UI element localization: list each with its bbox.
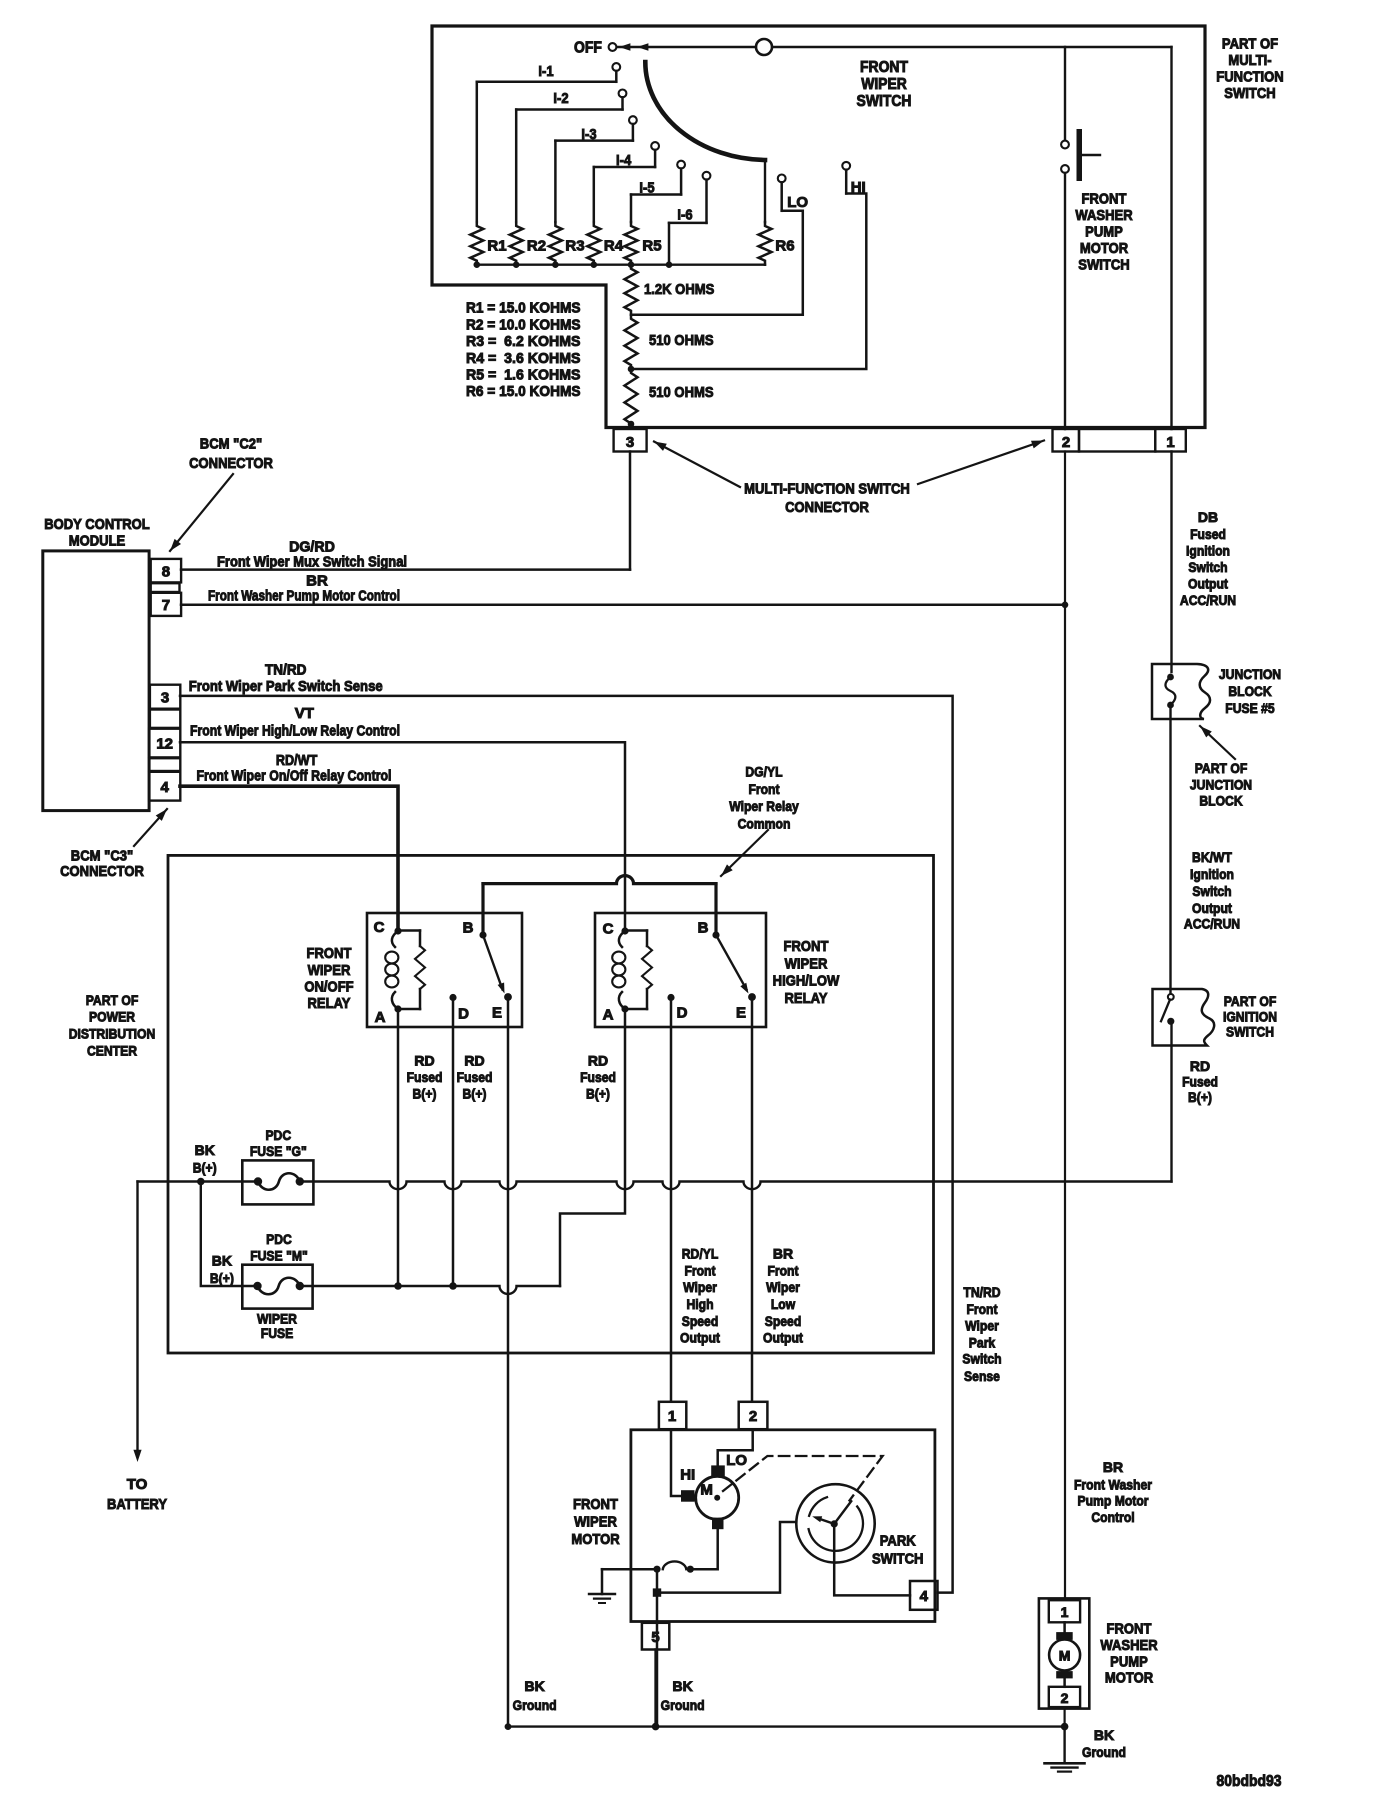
svg-text:JUNCTION: JUNCTION [1219,666,1281,682]
svg-text:Wiper: Wiper [683,1279,717,1295]
svg-text:ACC/RUN: ACC/RUN [1184,916,1240,932]
svg-text:Pump Motor: Pump Motor [1078,1492,1149,1508]
svg-text:A: A [375,1009,386,1026]
svg-text:2: 2 [1062,434,1070,451]
svg-text:Front: Front [767,1262,798,1278]
svg-text:Control: Control [1091,1509,1134,1525]
svg-text:FRONT: FRONT [784,938,829,955]
svg-text:Front Washer Pump Motor Contro: Front Washer Pump Motor Control [208,588,400,605]
svg-text:I-2: I-2 [553,90,568,107]
svg-text:WIPER: WIPER [574,1514,617,1531]
svg-text:E: E [492,1005,502,1022]
svg-text:Front: Front [966,1301,997,1317]
svg-text:High: High [686,1296,713,1312]
svg-text:HIGH/LOW: HIGH/LOW [773,973,840,990]
svg-text:BATTERY: BATTERY [107,1496,167,1513]
svg-text:IGNITION: IGNITION [1223,1008,1277,1024]
svg-text:B(+): B(+) [210,1270,234,1286]
svg-text:RD: RD [414,1053,434,1069]
svg-text:FUSE "G": FUSE "G" [250,1143,307,1159]
svg-text:Low: Low [771,1296,795,1312]
svg-text:FRONT: FRONT [860,59,908,76]
svg-text:BK/WT: BK/WT [1192,849,1232,865]
svg-text:R5 = 1.6 KOHMS: R5 = 1.6 KOHMS [466,367,581,384]
svg-text:MOTOR: MOTOR [1105,1670,1153,1687]
svg-text:PART OF: PART OF [1195,760,1248,776]
svg-text:7: 7 [162,597,170,614]
svg-text:Common: Common [738,816,791,832]
svg-text:RELAY: RELAY [785,990,828,1007]
svg-text:Front Wiper On/Off Relay Contr: Front Wiper On/Off Relay Control [197,767,392,784]
svg-text:MODULE: MODULE [69,533,126,550]
svg-text:Speed: Speed [682,1313,719,1329]
svg-text:HI: HI [851,179,866,196]
svg-text:510 OHMS: 510 OHMS [649,384,714,401]
svg-text:SWITCH: SWITCH [1078,257,1130,274]
svg-text:FUSE: FUSE [261,1325,294,1341]
svg-text:3: 3 [626,434,634,451]
svg-text:I-5: I-5 [639,180,654,197]
svg-text:Front: Front [748,781,779,797]
svg-text:Wiper: Wiper [965,1318,999,1334]
svg-text:R2 = 10.0 KOHMS: R2 = 10.0 KOHMS [466,316,581,333]
svg-text:Fused: Fused [580,1069,616,1085]
svg-text:2: 2 [1061,1690,1069,1706]
svg-text:FRONT: FRONT [1082,191,1127,208]
svg-text:Fused: Fused [1182,1073,1218,1089]
svg-text:R3 = 6.2 KOHMS: R3 = 6.2 KOHMS [466,333,581,350]
svg-text:BK: BK [195,1142,215,1158]
svg-text:BR: BR [1103,1459,1123,1475]
svg-text:4: 4 [920,1588,929,1605]
svg-text:Wiper Relay: Wiper Relay [729,798,799,814]
svg-text:SWITCH: SWITCH [1224,85,1276,102]
svg-text:FUSE "M": FUSE "M" [250,1247,308,1263]
svg-text:RD: RD [1190,1058,1210,1074]
svg-text:Switch: Switch [962,1350,1001,1366]
svg-text:WIPER: WIPER [861,76,907,93]
svg-text:Front: Front [684,1262,715,1278]
svg-text:D: D [458,1006,469,1023]
svg-text:BK: BK [212,1252,232,1268]
svg-text:CONNECTOR: CONNECTOR [785,499,869,516]
svg-text:SWITCH: SWITCH [857,93,912,110]
svg-text:R1: R1 [487,238,506,255]
svg-text:Sense: Sense [964,1368,1000,1384]
svg-text:R4 = 3.6 KOHMS: R4 = 3.6 KOHMS [466,350,581,367]
svg-text:I-6: I-6 [677,207,692,224]
svg-text:B: B [698,920,709,937]
svg-text:Front Wiper Mux Switch Signal: Front Wiper Mux Switch Signal [217,554,407,571]
svg-text:OFF: OFF [574,40,602,57]
svg-text:RD: RD [464,1053,484,1069]
svg-text:MULTI-FUNCTION SWITCH: MULTI-FUNCTION SWITCH [744,481,910,498]
svg-text:E: E [736,1005,746,1022]
svg-text:1: 1 [668,1408,676,1425]
svg-text:PUMP: PUMP [1085,224,1123,241]
svg-text:CONNECTOR: CONNECTOR [60,863,144,880]
svg-text:FRONT: FRONT [1107,1621,1152,1638]
svg-text:Fused: Fused [457,1069,493,1085]
svg-text:C: C [603,921,614,938]
svg-text:2: 2 [749,1408,757,1425]
svg-text:B(+): B(+) [586,1086,610,1102]
svg-text:FRONT: FRONT [573,1496,618,1513]
svg-text:B(+): B(+) [193,1160,217,1176]
svg-text:5: 5 [651,1629,659,1646]
svg-text:A: A [603,1007,614,1024]
svg-text:C: C [374,919,385,936]
svg-text:MOTOR: MOTOR [571,1531,619,1548]
svg-text:PDC: PDC [265,1127,291,1143]
svg-text:SWITCH: SWITCH [1226,1024,1274,1040]
svg-text:FRONT: FRONT [307,945,352,962]
svg-text:TN/RD: TN/RD [963,1284,1000,1300]
svg-text:LO: LO [726,1452,747,1469]
svg-text:BK: BK [672,1678,692,1694]
svg-text:CONNECTOR: CONNECTOR [189,455,273,472]
svg-text:Park: Park [969,1334,996,1350]
svg-text:WIPER: WIPER [785,956,828,973]
svg-text:12: 12 [156,736,173,753]
svg-text:BODY CONTROL: BODY CONTROL [44,516,150,533]
svg-text:BK: BK [524,1678,544,1694]
svg-text:B: B [463,920,474,937]
svg-text:R6 = 15.0 KOHMS: R6 = 15.0 KOHMS [466,383,581,400]
svg-text:1: 1 [1166,434,1174,451]
svg-text:CENTER: CENTER [87,1042,137,1058]
svg-text:ACC/RUN: ACC/RUN [1180,592,1236,608]
svg-text:Output: Output [1188,576,1228,592]
svg-text:B(+): B(+) [413,1086,437,1102]
svg-text:R5: R5 [642,238,661,255]
svg-text:MULTI-: MULTI- [1228,52,1271,69]
svg-text:Fused: Fused [407,1069,443,1085]
svg-text:4: 4 [161,779,170,796]
svg-text:BCM "C2": BCM "C2" [200,436,262,453]
svg-text:ON/OFF: ON/OFF [304,979,353,996]
svg-text:R2: R2 [527,238,546,255]
svg-text:FUNCTION: FUNCTION [1216,69,1283,86]
svg-text:POWER: POWER [89,1009,135,1025]
svg-text:PARK: PARK [880,1532,916,1549]
svg-text:Speed: Speed [765,1313,802,1329]
svg-text:BR: BR [773,1246,793,1262]
svg-text:PART OF: PART OF [86,992,139,1008]
svg-text:I-1: I-1 [538,63,553,80]
svg-text:I-3: I-3 [581,126,596,143]
svg-text:PART OF: PART OF [1224,993,1277,1009]
svg-text:RD/YL: RD/YL [682,1246,719,1262]
svg-text:DB: DB [1198,509,1218,525]
svg-text:Output: Output [1192,900,1232,916]
svg-text:JUNCTION: JUNCTION [1190,777,1252,793]
svg-text:Ignition: Ignition [1190,866,1234,882]
svg-text:Front Washer: Front Washer [1074,1476,1152,1492]
svg-text:Fused: Fused [1190,526,1226,542]
svg-text:DISTRIBUTION: DISTRIBUTION [69,1026,156,1042]
svg-text:MOTOR: MOTOR [1080,240,1128,257]
svg-text:1.2K OHMS: 1.2K OHMS [644,281,714,298]
svg-text:RD: RD [588,1053,608,1069]
svg-text:PDC: PDC [266,1231,292,1247]
svg-text:FUSE #5: FUSE #5 [1225,700,1275,716]
svg-text:M: M [700,1481,713,1498]
svg-text:Ground: Ground [513,1697,557,1713]
svg-text:BK: BK [1094,1727,1114,1743]
svg-text:D: D [677,1005,688,1022]
svg-text:510 OHMS: 510 OHMS [649,332,714,349]
svg-text:R6: R6 [775,238,794,255]
svg-text:PART OF: PART OF [1222,36,1278,53]
svg-text:VT: VT [295,705,314,722]
svg-text:BLOCK: BLOCK [1228,683,1271,699]
svg-text:Output: Output [763,1330,803,1346]
svg-text:HI: HI [680,1466,695,1483]
svg-text:M: M [1059,1648,1071,1664]
svg-text:1: 1 [1061,1604,1069,1620]
svg-text:TN/RD: TN/RD [265,662,307,679]
svg-text:B(+): B(+) [463,1086,487,1102]
svg-text:LO: LO [787,194,808,211]
svg-text:R1 = 15.0 KOHMS: R1 = 15.0 KOHMS [466,300,581,317]
svg-text:Front Wiper Park Switch Sense: Front Wiper Park Switch Sense [189,678,383,695]
svg-text:SWITCH: SWITCH [872,1551,924,1568]
svg-text:TO: TO [127,1476,148,1493]
svg-text:BLOCK: BLOCK [1199,793,1242,809]
svg-text:RELAY: RELAY [308,995,351,1012]
svg-text:WASHER: WASHER [1100,1637,1157,1654]
svg-text:WIPER: WIPER [308,962,351,979]
svg-text:Front Wiper High/Low Relay Con: Front Wiper High/Low Relay Control [190,723,400,740]
svg-text:Switch: Switch [1188,559,1227,575]
svg-text:B(+): B(+) [1188,1089,1212,1105]
svg-text:WASHER: WASHER [1075,207,1132,224]
svg-text:80bdbd93: 80bdbd93 [1217,1773,1282,1790]
svg-text:I-4: I-4 [616,152,632,169]
svg-text:R3: R3 [565,238,584,255]
svg-text:Ignition: Ignition [1186,543,1230,559]
svg-text:BCM "C3": BCM "C3" [71,848,133,865]
svg-text:DG/YL: DG/YL [745,764,783,780]
svg-text:Wiper: Wiper [766,1279,800,1295]
svg-text:Output: Output [680,1330,720,1346]
svg-text:R4: R4 [604,238,624,255]
svg-text:Ground: Ground [661,1697,705,1713]
svg-text:3: 3 [161,690,169,707]
svg-text:8: 8 [162,564,170,581]
svg-text:Ground: Ground [1082,1744,1126,1760]
svg-text:Switch: Switch [1192,883,1231,899]
svg-text:PUMP: PUMP [1110,1653,1148,1670]
